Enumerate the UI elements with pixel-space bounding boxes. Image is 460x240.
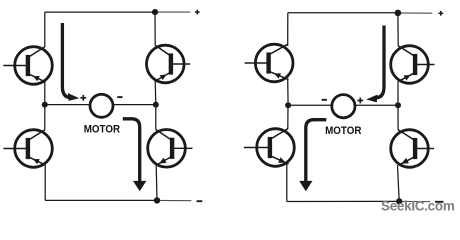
current flow arrow into motor + (right circuit) (366, 26, 384, 103)
wire top node to Q2 (154, 12, 156, 45)
wire top rail right circuit (288, 12, 398, 14)
wire left vertical from top rail to Q1 (44, 12, 46, 47)
power terminal - left (197, 200, 203, 202)
wire Q6 emitter to motor-right node (397, 81, 399, 105)
label - motor right (left terminal) (322, 99, 327, 101)
wire Q4 emitter to bottom node (155, 165, 158, 201)
svg-text:MOTOR: MOTOR (84, 123, 121, 136)
wire left vertical from top rail to Q5 (287, 13, 289, 46)
wire motor-right node to Q8 (397, 105, 399, 130)
node V- junction left (154, 197, 160, 203)
current flow arrow into motor + (left circuit) (62, 23, 79, 101)
svg-text:MOTOR: MOTOR (325, 124, 362, 137)
wire Q5 emitter to motor-left node (287, 80, 289, 106)
transistor Q8 (391, 130, 434, 168)
motor M2 (332, 95, 355, 118)
wire motor-right node to Q4 (155, 105, 157, 130)
wire Q3 emitter to bottom rail (44, 165, 46, 200)
wire top node to Q6 (397, 13, 399, 46)
node motor-left junction left circuit (42, 102, 48, 108)
transistor Q5 (245, 44, 293, 82)
node V+ junction left (152, 9, 158, 15)
current flow arrow out of motor - down (right circuit) (299, 120, 326, 192)
wire bottom rail right circuit (287, 200, 399, 202)
node V+ junction right (395, 10, 402, 17)
transistor Q1 (3, 47, 52, 85)
power terminal - right (435, 201, 444, 203)
label + motor right terminal (357, 98, 363, 104)
label - motor left (right terminal) (117, 96, 122, 98)
transistor Q6 (391, 46, 435, 84)
transistor Q7 (244, 129, 295, 167)
wire bottom rail left circuit (45, 199, 157, 201)
wire motor row right segment (114, 104, 156, 106)
node motor-right junction left circuit (153, 102, 159, 108)
node motor-left junction right circuit (285, 102, 291, 108)
current flow arrow out of motor - down (left circuit) (123, 119, 147, 192)
power terminal + left (195, 10, 200, 15)
wire top rail left circuit (45, 11, 155, 13)
wire motor row left segment right circuit (288, 104, 331, 106)
node V- junction right (396, 198, 402, 204)
transistor Q2 (147, 45, 191, 83)
wire motor-left node to Q3 (44, 105, 46, 130)
svg-text:SeekIC.com: SeekIC.com (381, 199, 455, 214)
transistor Q3 (3, 130, 52, 168)
wire motor row right segment right circuit (356, 104, 398, 106)
wire motor-left node to Q7 (287, 105, 289, 129)
wire Q2 emitter to motor-right node (154, 81, 157, 105)
wire motor row left segment (45, 104, 90, 106)
node motor-right junction right circuit (395, 102, 401, 108)
label + motor left terminal (80, 95, 86, 101)
transistor Q4 (148, 130, 193, 168)
power terminal + right (438, 11, 443, 16)
wire Q1 emitter to motor-left node (44, 82, 46, 105)
motor M1 (90, 94, 113, 117)
wire Q8 emitter to bottom node (398, 165, 400, 201)
wire Q7 emitter to bottom rail (286, 164, 288, 201)
